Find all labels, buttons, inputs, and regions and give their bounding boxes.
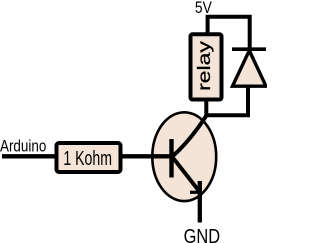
svg-text:5V: 5V [195, 0, 212, 17]
svg-text:relay: relay [195, 40, 214, 91]
svg-text:Arduino: Arduino [0, 137, 46, 155]
svg-text:GND: GND [184, 225, 221, 243]
svg-text:1 Kohm: 1 Kohm [63, 148, 112, 170]
